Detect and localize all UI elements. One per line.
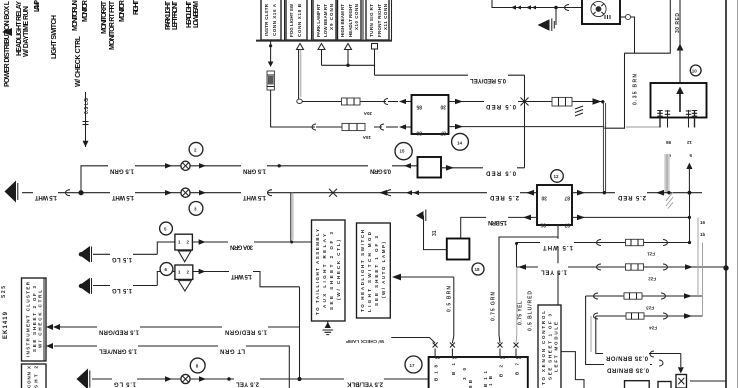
wire down with label [604, 53, 624, 128]
svg-text:30: 30 [434, 355, 440, 360]
svg-text:PARK LIGHT: PARK LIGHT [165, 0, 172, 30]
right margin vertical a [689, 193, 691, 243]
relay pin2 output wire [449, 126, 605, 128]
svg-text:RIGHT: RIGHT [133, 0, 140, 15]
relay right pin1 row [572, 192, 702, 194]
splice X on left pin1 wire [329, 189, 337, 197]
arrow into bus [593, 98, 602, 104]
svg-text:W/ CHECK CTRL: W/ CHECK CTRL [75, 35, 82, 87]
drop to row F22 [516, 243, 518, 268]
svg-text:17: 17 [410, 363, 416, 368]
wire C4 drop [347, 50, 349, 66]
svg-text:2.5 RED: 2.5 RED [489, 194, 519, 200]
svg-text:0.5 BLU/RED: 0.5 BLU/RED [528, 291, 534, 331]
svg-text:HEADLT RIGHT: HEADLT RIGHT [348, 4, 353, 37]
right edge long vertical [725, 0, 727, 388]
svg-text:PARK LAMP RT: PARK LAMP RT [316, 4, 321, 37]
wire to ground pin (upper) [596, 316, 681, 354]
connector C3 [313, 0, 336, 40]
circled 10 [690, 65, 701, 76]
fusible link hatch [575, 106, 583, 116]
svg-text:1.5 LG: 1.5 LG [112, 256, 132, 262]
svg-text:LOW BEAM RT: LOW BEAM RT [323, 4, 328, 37]
svg-text:W/ DAYTIME RUN: W/ DAYTIME RUN [23, 6, 30, 57]
circled A near relay [452, 133, 469, 150]
svg-text:INSTR CLSTR: INSTR CLSTR [264, 3, 269, 36]
fuse F1 [342, 98, 361, 105]
svg-text:LEFT FRONT: LEFT FRONT [172, 0, 179, 30]
inline connector marks [650, 351, 663, 366]
lamp symbol [591, 1, 606, 16]
svg-text:CONN X16 A: CONN X16 A [272, 3, 277, 36]
svg-text:0.35 BRN: 0.35 BRN [633, 74, 639, 105]
right margin vertical b [697, 217, 699, 296]
svg-text:15A: 15A [362, 135, 371, 140]
lamp L1 box [582, 0, 620, 24]
svg-text:1.5 GRN: 1.5 GRN [243, 167, 266, 173]
svg-text:1.5 WHT: 1.5 WHT [231, 273, 252, 279]
svg-text:POWER DISTRIBUTION BOX L: POWER DISTRIBUTION BOX L [4, 0, 11, 87]
svg-text:LEFT MODULE: LEFT MODULE [554, 322, 559, 372]
svg-text:30A GRN: 30A GRN [230, 244, 253, 250]
inline connector pair 2 [526, 5, 536, 10]
fuse row F23 [586, 293, 703, 311]
ground arrow under M1 [323, 321, 334, 335]
svg-text:(W/ CHECK CTL): (W/ CHECK CTL) [336, 240, 341, 301]
svg-text:1.5 LG: 1.5 LG [114, 381, 136, 387]
svg-text:30: 30 [541, 195, 547, 201]
svg-text:85: 85 [416, 104, 422, 110]
wire stub to pin [626, 126, 660, 128]
feed wire from top to lamp node [624, 0, 670, 53]
connector C4 [338, 0, 362, 40]
label 30A RED [484, 98, 518, 109]
junction [346, 64, 349, 67]
svg-text:2.5 YEL/BLK: 2.5 YEL/BLK [346, 381, 383, 387]
svg-text:0.5 LG: 0.5 LG [84, 98, 90, 114]
svg-text:MONITOR UN: MONITOR UN [72, 0, 79, 31]
svg-text:1.5 WHT: 1.5 WHT [35, 194, 57, 200]
svg-text:0.5 RED: 0.5 RED [485, 103, 516, 109]
relay bottom branch left [499, 237, 558, 343]
svg-text:S25: S25 [1, 286, 7, 298]
resistor block R1 [447, 239, 470, 260]
right border faint [737, 0, 739, 388]
svg-text:18: 18 [475, 267, 481, 272]
svg-text:0.35 BRN/RD: 0.35 BRN/RD [606, 366, 649, 372]
inline connector [552, 97, 572, 106]
svg-text:30A: 30A [363, 111, 372, 116]
branch down from row B [290, 193, 292, 242]
junction dot lamp [554, 6, 558, 10]
svg-text:12: 12 [686, 140, 692, 145]
row C wire [79, 234, 292, 262]
left connector box B2 [22, 364, 47, 388]
svg-text:1b: 1b [700, 232, 706, 237]
left connector box B1 [22, 278, 47, 361]
svg-text:HIGH BEAM RT: HIGH BEAM RT [340, 4, 345, 37]
connector pin2 entry [374, 124, 384, 130]
svg-text:87: 87 [564, 222, 570, 228]
row A wire y165.8 [81, 161, 419, 193]
circled 15 [395, 143, 412, 160]
relay right pin2 row [572, 216, 689, 218]
svg-text:1.5 GRN/YEL: 1.5 GRN/YEL [99, 348, 137, 354]
svg-text:1.5 RED/GRN: 1.5 RED/GRN [99, 329, 139, 335]
svg-text:MONITOR RT FRT: MONITOR RT FRT [109, 0, 116, 50]
svg-text:1.5 YEL: 1.5 YEL [541, 269, 567, 275]
svg-text:X9 CONN: X9 CONN [329, 4, 334, 30]
circled 8 above row G [190, 358, 205, 373]
main bus vertical [602, 102, 604, 193]
svg-text:AUX LIGHT RELAY: AUX LIGHT RELAY [322, 234, 327, 308]
bus junction dot [601, 100, 604, 103]
circled 3 below row B [189, 202, 203, 216]
svg-text:86: 86 [416, 130, 422, 136]
drop from row D [299, 287, 301, 379]
svg-text:15: 15 [400, 149, 406, 154]
drop with arrow into pin box [680, 354, 682, 368]
svg-text:LT GRN: LT GRN [220, 348, 245, 354]
svg-text:10: 10 [692, 69, 698, 74]
lamp output wire [631, 17, 635, 53]
svg-text:MONITOR: MONITOR [82, 0, 89, 22]
lamp output connector [625, 14, 630, 19]
svg-text:15: 15 [451, 355, 457, 360]
wire C3 drop [321, 50, 323, 66]
pin crosses [433, 343, 519, 358]
svg-text:X10 CONN: X10 CONN [354, 4, 359, 30]
svg-text:0.5 RED/YEL: 0.5 RED/YEL [470, 77, 506, 83]
svg-text:MONITOR RT: MONITOR RT [101, 0, 108, 34]
svg-text:LAMP: LAMP [34, 0, 41, 12]
svg-text:86: 86 [540, 222, 546, 228]
connector box M2 [357, 223, 391, 318]
pin box X4 [676, 375, 687, 388]
svg-text:2.5 RED: 2.5 RED [617, 194, 646, 200]
row D wire [79, 265, 300, 294]
row F wire y346 [46, 342, 289, 388]
svg-text:31: 31 [432, 230, 438, 236]
lamp wire from top corner [492, 0, 582, 8]
terminal square under C5 [372, 44, 378, 50]
row E wire y327 [46, 323, 300, 334]
fusible link F38 [267, 71, 274, 90]
svg-text:58: 58 [515, 355, 521, 360]
wire into pin1 [391, 338, 435, 344]
diode module D1 [418, 157, 442, 178]
fuse row F21 [517, 239, 692, 257]
terminal under C1 [270, 40, 272, 45]
svg-text:HEADLIGHT: HEADLIGHT [186, 0, 193, 28]
vertical wire WA/B [515, 267, 518, 343]
ground G3 [538, 19, 550, 31]
svg-text:0.75 GRN: 0.75 GRN [491, 292, 497, 321]
bottom small box 2 [658, 382, 671, 388]
svg-text:HEADLIGHT RELAY: HEADLIGHT RELAY [16, 1, 23, 56]
wire C2 drop [298, 50, 300, 100]
bottom edge line [690, 380, 726, 382]
svg-text:1.5 WHT: 1.5 WHT [243, 194, 266, 200]
svg-text:0.5 GRN: 0.5 GRN [370, 167, 391, 173]
circled 5 [160, 222, 173, 235]
inline connector pair 1 [511, 5, 521, 10]
wire C1 drop [270, 47, 272, 62]
svg-text:1.5 WHT: 1.5 WHT [112, 194, 134, 200]
svg-text:86: 86 [665, 140, 671, 145]
svg-text:0.75 YEL: 0.75 YEL [518, 301, 524, 325]
relay left pin1 wire segment [292, 192, 537, 194]
terminal triangle under C2 [297, 44, 304, 50]
svg-text:SEE SHEET 1 OF 3: SEE SHEET 1 OF 3 [548, 314, 553, 380]
fuse row F22 [517, 263, 729, 281]
ground branch [555, 8, 557, 26]
svg-text:0.5 RED: 0.5 RED [485, 169, 516, 175]
wire to ground pin (lower) [586, 296, 652, 365]
internal arrow up [679, 92, 681, 112]
feed wire arrow from top [679, 0, 681, 83]
label 0.5 RED YEL [468, 72, 508, 84]
diode output wire [441, 164, 525, 175]
svg-text:X11 CONN: X11 CONN [383, 4, 388, 30]
connector row bottom edge [256, 40, 392, 42]
circled K6 [551, 170, 564, 183]
svg-text:87: 87 [564, 195, 570, 201]
wire drop at 524.5 [524, 75, 526, 168]
svg-text:W/ CHECK CTRL: W/ CHECK CTRL [38, 290, 43, 348]
relay left pin2 wire [461, 217, 537, 238]
connector box M1 [312, 220, 346, 321]
relay bottom wire path [558, 225, 584, 388]
wire C5 drop [374, 49, 376, 75]
svg-text:1.5 GRN: 1.5 GRN [110, 167, 134, 173]
circled 6 [160, 263, 173, 276]
svg-text:16: 16 [700, 220, 706, 225]
relay pin1 output wire [449, 101, 603, 103]
label 6A1A [603, 349, 649, 360]
svg-text:0.5 BRN: 0.5 BRN [447, 286, 453, 312]
connector box TO XENON [538, 305, 561, 388]
splice X on relay pin1 wire [521, 98, 529, 106]
label WBA [604, 361, 650, 372]
bottom small box 1 [625, 381, 650, 388]
wire C1 drop lower [271, 90, 315, 127]
wire joining C3/C4 [322, 64, 375, 66]
svg-text:30: 30 [440, 104, 446, 110]
svg-text:TO HEADLIGHT SWITCH: TO HEADLIGHT SWITCH [360, 230, 365, 312]
arrow left edge top [2, 28, 12, 36]
svg-text:W/ CHECK LAMP: W/ CHECK LAMP [346, 339, 384, 344]
svg-text:B18: B18 [434, 365, 439, 381]
svg-text:1.5 LG: 1.5 LG [112, 287, 132, 293]
pin stubs bottom of box [657, 110, 697, 128]
svg-text:TURN SIG RT: TURN SIG RT [369, 4, 374, 37]
svg-text:1.5 WHT: 1.5 WHT [543, 244, 573, 250]
terminal triangle under C3 [318, 44, 325, 50]
svg-text:1.5 BRN: 1.5 BRN [488, 219, 507, 225]
circled 2 above row A [189, 142, 203, 156]
right margin vertical c [702, 243, 704, 317]
svg-text:CONN X18 B: CONN X18 B [297, 3, 302, 37]
svg-text:56: 56 [499, 355, 505, 360]
fuse row F24 [594, 313, 703, 331]
svg-text:1.5 RED/GRN: 1.5 RED/GRN [225, 329, 267, 335]
connector pin1 entry [360, 99, 388, 105]
svg-text:8B: 8B [468, 379, 473, 388]
svg-text:SEE SHEET 1 OF 3: SEE SHEET 1 OF 3 [374, 236, 379, 306]
connector C5 [366, 0, 389, 40]
svg-text:CONN X: CONN X [27, 366, 32, 388]
svg-text:(W/ AUTO LAMP): (W/ AUTO LAMP) [381, 242, 386, 299]
fuse box F34 top right [651, 83, 707, 118]
svg-text:SEE SHEET 2 OF 3: SEE SHEET 2 OF 3 [32, 286, 37, 352]
svg-text:87: 87 [440, 130, 446, 136]
fuse F2 [342, 123, 365, 130]
svg-text:FRONT RIGHT: FRONT RIGHT [377, 4, 382, 37]
wire to right with label [375, 74, 525, 76]
svg-text:MONITOR: MONITOR [119, 0, 126, 22]
svg-text:LIGHT SWITCH: LIGHT SWITCH [51, 15, 58, 59]
stub vertical grey [590, 316, 592, 352]
svg-text:F21: F21 [647, 252, 655, 257]
arrow up wire to row [688, 168, 690, 193]
svg-text:LOW BEAM: LOW BEAM [193, 1, 200, 28]
inline connector on pin2 wire [312, 124, 316, 130]
row H wire y277 into M2 [392, 274, 454, 343]
connector C1 [261, 0, 281, 40]
row G wire y377.5 [77, 369, 429, 388]
svg-text:F22: F22 [648, 277, 656, 282]
connector C2 [286, 0, 307, 40]
terminal triangle under C4 [345, 44, 352, 50]
svg-text:F24: F24 [649, 326, 657, 331]
hanging wire x85.5 [83, 92, 91, 147]
row B wire y192.7 [5, 181, 292, 203]
svg-text:12: 12 [554, 174, 560, 179]
circled 18 [472, 263, 484, 275]
svg-text:0.35 BRN/OR: 0.35 BRN/OR [605, 354, 648, 360]
svg-text:2.5 YEL: 2.5 YEL [236, 381, 259, 387]
ground G2 path [424, 216, 447, 250]
svg-text:F23: F23 [646, 306, 654, 311]
svg-text:FOG LIGHT SW: FOG LIGHT SW [289, 3, 294, 37]
thick grey wire from pin [664, 154, 669, 193]
ground G2 symbol [416, 211, 424, 220]
svg-text:SEE SHEET 2 OF 3: SEE SHEET 2 OF 3 [329, 232, 334, 310]
svg-text:14: 14 [457, 141, 463, 146]
circled 17 [405, 356, 422, 373]
